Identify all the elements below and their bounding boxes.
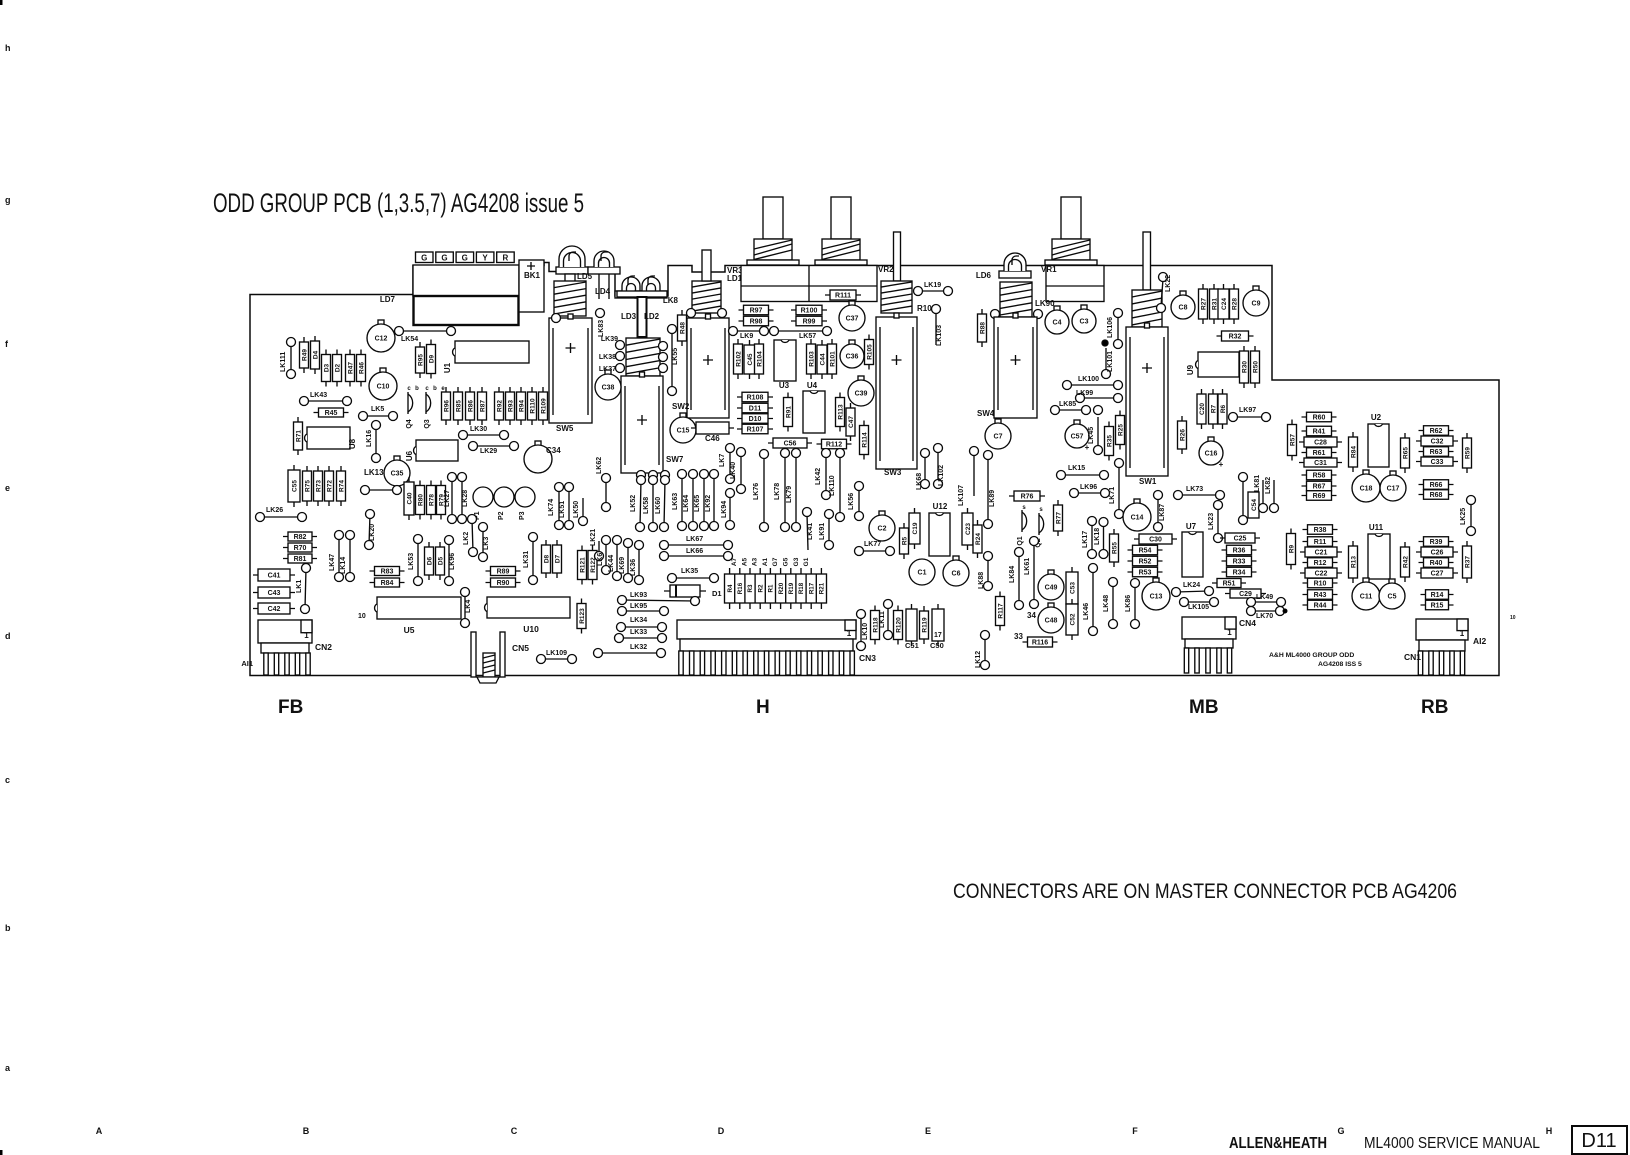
connector CN2 xyxy=(258,620,332,675)
capacitor C14 xyxy=(1123,499,1151,531)
pad under C38 left xyxy=(552,314,561,323)
switch SW7 xyxy=(621,372,684,473)
svg-text:C5: C5 xyxy=(1388,594,1397,601)
svg-text:LK65: LK65 xyxy=(694,495,701,512)
svg-text:C9: C9 xyxy=(1252,301,1261,308)
fader hatch LK8 xyxy=(692,281,721,313)
svg-text:D6: D6 xyxy=(426,556,433,565)
svg-text:R33: R33 xyxy=(1233,559,1246,566)
resistor R24 xyxy=(973,520,982,558)
svg-text:R78: R78 xyxy=(428,494,435,506)
svg-text:G: G xyxy=(441,254,447,263)
svg-text:LK87: LK87 xyxy=(1159,504,1166,521)
svg-text:LK33: LK33 xyxy=(630,629,647,636)
pot body VR3/VR2 xyxy=(741,266,877,302)
svg-text:C43: C43 xyxy=(268,590,281,597)
link LK11 xyxy=(879,600,893,640)
LED LD5 neck xyxy=(565,274,575,282)
svg-text:1: 1 xyxy=(1460,629,1465,638)
resistor R107 xyxy=(737,424,773,434)
svg-text:LK45: LK45 xyxy=(1088,427,1095,444)
svg-text:LK74: LK74 xyxy=(548,499,555,516)
capacitor C4 xyxy=(1045,306,1069,334)
capacitor C1 xyxy=(909,559,935,585)
svg-text:C20: C20 xyxy=(1199,403,1206,415)
resistor R92 xyxy=(495,387,504,425)
svg-text:R18: R18 xyxy=(798,582,805,594)
svg-text:SW7: SW7 xyxy=(666,455,684,464)
svg-text:C50: C50 xyxy=(930,641,944,650)
indicator box R5 xyxy=(497,252,515,263)
fader hatch above SW5 xyxy=(554,281,586,316)
svg-text:R11: R11 xyxy=(1314,539,1327,546)
capacitor C11 xyxy=(1352,578,1380,610)
svg-text:R71: R71 xyxy=(295,430,302,442)
svg-text:R117: R117 xyxy=(997,603,1004,619)
svg-text:R25: R25 xyxy=(1117,424,1124,436)
LED spacer LD3/LD2 xyxy=(617,291,667,337)
svg-text:C30: C30 xyxy=(1149,537,1162,544)
link LK67 xyxy=(660,536,733,550)
resistor R26 xyxy=(1178,416,1187,454)
resistor R78 xyxy=(427,481,436,520)
svg-text:R63: R63 xyxy=(1430,449,1443,456)
svg-text:C15: C15 xyxy=(677,428,690,435)
resistor R27 xyxy=(1199,284,1208,324)
svg-text:R12: R12 xyxy=(1314,560,1327,567)
LED LD2 xyxy=(635,276,667,298)
svg-text:R34: R34 xyxy=(1233,570,1246,577)
svg-text:C46: C46 xyxy=(705,434,720,443)
resistor R68 xyxy=(1419,490,1454,500)
link LK52 xyxy=(630,476,646,532)
svg-text:U6: U6 xyxy=(405,450,414,461)
resistor R117 xyxy=(996,592,1005,631)
corner tick top-left xyxy=(0,0,3,5)
resistor R41 xyxy=(1302,426,1337,436)
IC U11 xyxy=(1368,523,1390,579)
link LK81 xyxy=(1254,475,1268,513)
svg-text:R114: R114 xyxy=(861,432,868,448)
LED LD4 xyxy=(588,251,620,299)
svg-text:C53: C53 xyxy=(1069,582,1076,594)
svg-text:LK96: LK96 xyxy=(449,553,456,570)
svg-text:VR2: VR2 xyxy=(878,265,894,274)
svg-text:LK11: LK11 xyxy=(879,611,886,628)
svg-text:LK38: LK38 xyxy=(599,354,616,361)
resistor R82 xyxy=(283,532,317,541)
link LK99 xyxy=(1076,390,1123,403)
svg-text:R66: R66 xyxy=(1430,482,1443,489)
link LK13 pads xyxy=(361,486,402,495)
resistor R48 xyxy=(678,310,687,346)
link LK2 xyxy=(463,515,478,557)
svg-text:BK1: BK1 xyxy=(524,271,541,280)
link LK65 xyxy=(694,470,709,531)
potentiometer VR3 xyxy=(727,197,799,275)
svg-text:G: G xyxy=(462,254,468,263)
link LK101 xyxy=(1102,348,1115,379)
svg-text:AI1: AI1 xyxy=(241,659,253,668)
svg-text:C49: C49 xyxy=(1045,585,1058,592)
svg-text:R21: R21 xyxy=(819,582,826,594)
link LK56 xyxy=(848,482,864,521)
svg-text:R50: R50 xyxy=(1252,361,1259,373)
resistor R74 xyxy=(337,466,346,506)
svg-text:Q3: Q3 xyxy=(424,419,431,428)
resistor R119 xyxy=(920,606,929,644)
svg-text:LK94: LK94 xyxy=(721,501,728,518)
transistor Q2 xyxy=(1035,513,1044,548)
resistor R123 xyxy=(577,599,586,634)
svg-text:R85: R85 xyxy=(455,400,462,412)
svg-text:LK76: LK76 xyxy=(753,483,760,500)
svg-text:LK3: LK3 xyxy=(483,537,490,550)
svg-text:34: 34 xyxy=(1027,611,1036,620)
svg-text:SW3: SW3 xyxy=(884,468,902,477)
svg-text:e: e xyxy=(5,483,10,493)
svg-text:ML4000 SERVICE MANUAL: ML4000 SERVICE MANUAL xyxy=(1364,1135,1540,1152)
svg-text:LK83: LK83 xyxy=(598,320,605,337)
capacitor C39 xyxy=(848,376,874,406)
resistor R79 xyxy=(437,481,446,520)
svg-text:LK110: LK110 xyxy=(829,475,836,496)
svg-text:VR1: VR1 xyxy=(1041,265,1057,274)
diode D5 xyxy=(436,542,445,580)
resistor R118 xyxy=(871,606,880,645)
svg-text:C: C xyxy=(511,1126,518,1136)
capacitor C12 xyxy=(367,320,395,352)
svg-text:CONNECTORS ARE ON MASTER CONNE: CONNECTORS ARE ON MASTER CONNECTOR PCB A… xyxy=(953,879,1457,903)
bracket BK1 xyxy=(519,260,544,312)
link LK6 xyxy=(597,536,611,575)
link LK31 xyxy=(523,533,538,585)
svg-text:C44: C44 xyxy=(819,353,826,365)
svg-text:LK66: LK66 xyxy=(686,548,703,555)
svg-text:R111: R111 xyxy=(835,293,851,300)
capacitor C19 xyxy=(909,508,920,549)
capacitor C20 xyxy=(1197,389,1206,429)
svg-text:C54: C54 xyxy=(1251,499,1258,511)
link LK93 xyxy=(618,592,700,606)
link LK84 xyxy=(1009,548,1024,610)
indicator box G3 xyxy=(456,252,474,263)
resistor R11 xyxy=(1303,537,1338,547)
svg-text:LK71: LK71 xyxy=(1109,487,1116,504)
svg-text:d: d xyxy=(5,631,11,641)
svg-text:R119: R119 xyxy=(921,617,928,633)
svg-text:LK18: LK18 xyxy=(1094,528,1101,545)
svg-text:LK95: LK95 xyxy=(630,603,647,610)
svg-text:R84: R84 xyxy=(1350,446,1357,458)
link LK61 xyxy=(1024,537,1039,609)
diode D3 xyxy=(322,350,331,387)
svg-text:AG4208 ISS 5: AG4208 ISS 5 xyxy=(1318,661,1362,668)
diode D4 xyxy=(311,336,320,374)
capacitor C25 xyxy=(1220,533,1260,543)
svg-text:C35: C35 xyxy=(391,471,404,478)
svg-text:C13: C13 xyxy=(1150,594,1163,601)
shaft above SW3 xyxy=(894,232,901,281)
link LK100 xyxy=(1063,376,1123,390)
svg-text:C3: C3 xyxy=(1080,319,1089,326)
svg-text:LK48: LK48 xyxy=(1103,595,1110,612)
resistor R65 xyxy=(1401,433,1410,473)
svg-text:CN3: CN3 xyxy=(859,653,876,663)
resistor R104 xyxy=(755,339,764,379)
capacitor C15 xyxy=(670,413,696,443)
svg-text:R3: R3 xyxy=(747,584,754,592)
svg-text:LK82: LK82 xyxy=(1265,477,1272,494)
resistor R15 xyxy=(1421,600,1454,610)
svg-text:SW1: SW1 xyxy=(1139,477,1157,486)
svg-text:LK73: LK73 xyxy=(1186,486,1203,493)
resistor R51 xyxy=(1212,579,1246,588)
resistor R96 xyxy=(442,387,451,425)
svg-text:R96: R96 xyxy=(443,400,450,412)
svg-text:b: b xyxy=(5,923,11,933)
resistor R60 xyxy=(1302,412,1337,422)
svg-text:R4: R4 xyxy=(727,584,734,592)
svg-text:R84: R84 xyxy=(381,580,394,587)
link LK19 xyxy=(914,282,953,296)
LED LD6 xyxy=(999,253,1031,278)
capacitor C33 xyxy=(1416,457,1458,466)
capacitor C42 xyxy=(253,603,295,614)
svg-text:LK1: LK1 xyxy=(296,580,303,593)
svg-text:LK57: LK57 xyxy=(799,333,816,340)
resistor R85 xyxy=(454,387,463,425)
resistor R52 xyxy=(1128,556,1163,566)
svg-text:LD3: LD3 xyxy=(621,312,637,321)
resistor R101 xyxy=(828,339,837,379)
resistor R55 xyxy=(1110,529,1119,567)
svg-text:LD7: LD7 xyxy=(380,295,396,304)
corner tick bottom-left xyxy=(0,1150,3,1155)
transistor Q4 xyxy=(406,392,413,429)
svg-text:R42: R42 xyxy=(1402,556,1409,568)
link LK96 xyxy=(445,536,457,586)
shaft above SW1 xyxy=(1143,232,1151,290)
svg-text:R38: R38 xyxy=(1314,527,1327,534)
svg-text:R97: R97 xyxy=(750,308,763,315)
svg-text:R120: R120 xyxy=(895,617,902,633)
svg-text:R51: R51 xyxy=(1223,581,1236,588)
capacitor C46 xyxy=(691,422,734,434)
svg-text:C27: C27 xyxy=(1431,571,1444,578)
connector CN5 xyxy=(471,632,529,683)
svg-text:R46: R46 xyxy=(358,362,365,374)
resistor R84b xyxy=(1349,432,1358,472)
svg-text:C37: C37 xyxy=(846,316,859,323)
link LK23 xyxy=(1208,501,1223,543)
resistor R49 xyxy=(300,337,309,373)
fader hatch above SW1 xyxy=(1132,290,1162,327)
link LK74 xyxy=(548,483,564,530)
link LK92 xyxy=(705,470,719,531)
link LK77 xyxy=(855,541,895,556)
link LK21 xyxy=(590,529,604,561)
link LK86 xyxy=(1125,579,1140,629)
svg-text:LK55: LK55 xyxy=(672,348,679,365)
svg-text:R67: R67 xyxy=(1313,484,1326,491)
svg-text:H: H xyxy=(756,697,770,718)
svg-text:G3: G3 xyxy=(793,557,800,566)
svg-text:R75: R75 xyxy=(304,480,311,492)
svg-text:LK19: LK19 xyxy=(924,282,941,289)
link LK103 xyxy=(932,305,944,347)
resistor R112 xyxy=(817,439,852,449)
svg-text:R105: R105 xyxy=(866,344,873,360)
resistor R14 xyxy=(1421,590,1454,600)
resistor R9 xyxy=(1287,529,1296,570)
svg-text:R27: R27 xyxy=(1200,298,1207,310)
svg-text:C42: C42 xyxy=(268,606,281,613)
display housing LD7 upper xyxy=(413,265,519,296)
svg-text:R20: R20 xyxy=(778,582,785,594)
svg-text:R68: R68 xyxy=(1430,492,1443,499)
svg-text:LK86: LK86 xyxy=(1125,595,1132,612)
svg-text:LK63: LK63 xyxy=(672,493,679,510)
resistor R121 xyxy=(578,546,587,585)
capacitor C27 xyxy=(1416,568,1458,578)
link LK53 xyxy=(408,535,423,586)
svg-text:LK105: LK105 xyxy=(1188,604,1209,611)
link LK68 xyxy=(916,449,930,491)
resistor R77 xyxy=(1054,500,1063,536)
link LK96b xyxy=(1070,484,1110,498)
switch SW4 xyxy=(977,313,1037,418)
svg-text:AI2: AI2 xyxy=(1473,636,1487,646)
PCB board outline xyxy=(250,263,1499,676)
link LK20 xyxy=(365,510,377,550)
IC U10 xyxy=(485,597,570,634)
link LK28 xyxy=(458,473,470,524)
resistor R83 xyxy=(370,567,405,576)
resistor R47 xyxy=(346,350,355,387)
svg-text:SW2: SW2 xyxy=(672,402,690,411)
resistor R36 xyxy=(1222,545,1257,555)
svg-text:LK16: LK16 xyxy=(366,430,373,447)
svg-text:CN5: CN5 xyxy=(512,643,529,653)
link LK45 xyxy=(1088,417,1103,455)
svg-text:C41: C41 xyxy=(268,573,281,580)
LED LD5 xyxy=(556,246,593,281)
svg-text:R57: R57 xyxy=(1289,434,1296,446)
IC U2 xyxy=(1368,413,1389,467)
svg-text:C16: C16 xyxy=(1205,451,1218,458)
svg-text:U1: U1 xyxy=(443,362,452,373)
svg-text:C33: C33 xyxy=(1431,459,1444,466)
svg-text:D4: D4 xyxy=(312,350,319,359)
link LK58 xyxy=(643,476,658,532)
resistor R120 xyxy=(894,606,903,645)
svg-text:R13: R13 xyxy=(1350,556,1357,568)
svg-text:LK97: LK97 xyxy=(1239,407,1256,414)
IC U3 xyxy=(774,340,796,390)
svg-text:C34: C34 xyxy=(546,446,561,455)
capacitor C22 xyxy=(1300,568,1342,578)
capacitor C6 xyxy=(943,556,969,586)
transistor Q3 xyxy=(424,392,431,429)
svg-text:LK78: LK78 xyxy=(774,483,781,500)
svg-text:b: b xyxy=(433,386,437,392)
svg-text:R98: R98 xyxy=(750,319,763,326)
svg-text:A&H ML4000 GROUP ODD: A&H ML4000 GROUP ODD xyxy=(1269,652,1354,659)
capacitor C28 xyxy=(1299,437,1342,447)
svg-text:C57: C57 xyxy=(1071,434,1084,441)
svg-text:R121: R121 xyxy=(579,557,586,573)
svg-text:LK103: LK103 xyxy=(936,325,943,346)
svg-text:LK5: LK5 xyxy=(371,406,384,413)
svg-text:C40: C40 xyxy=(406,492,413,504)
link LK88 xyxy=(978,552,993,591)
svg-text:LK101: LK101 xyxy=(1107,351,1114,372)
shaft above LK8 xyxy=(702,250,711,281)
link LK66 xyxy=(660,548,733,561)
IC U5 xyxy=(375,597,461,635)
svg-text:R91: R91 xyxy=(785,406,792,418)
diode D8 xyxy=(542,540,551,578)
resistor R31 xyxy=(1210,284,1219,324)
IC U4 xyxy=(803,381,825,433)
resistor R94 xyxy=(517,387,526,425)
resistor R76 xyxy=(1009,491,1045,501)
indicator box Y4 xyxy=(476,252,494,263)
resistor R93 xyxy=(506,387,515,425)
svg-text:C25: C25 xyxy=(1234,536,1247,543)
link LK1 xyxy=(296,564,311,614)
svg-text:D3: D3 xyxy=(323,363,330,372)
resistor R98 xyxy=(739,316,774,326)
svg-text:R15: R15 xyxy=(1431,603,1444,610)
svg-text:LK35: LK35 xyxy=(681,568,698,575)
svg-text:LK69: LK69 xyxy=(619,557,626,574)
svg-text:U5: U5 xyxy=(404,625,415,635)
svg-text:C12: C12 xyxy=(375,336,388,343)
resistor R25 xyxy=(1116,411,1125,450)
connector CN4 xyxy=(1182,617,1256,673)
svg-text:LK6: LK6 xyxy=(597,553,604,566)
svg-text:R28: R28 xyxy=(1231,298,1238,310)
capacitor C36 xyxy=(840,340,864,368)
svg-text:R44: R44 xyxy=(1314,603,1327,610)
resistor array R4-R21 xyxy=(725,568,827,609)
capacitor C57 xyxy=(1065,420,1090,452)
svg-text:LK30: LK30 xyxy=(470,426,487,433)
link LK18 xyxy=(1094,518,1108,559)
capacitor C34 xyxy=(524,441,552,473)
svg-text:D1: D1 xyxy=(712,589,722,598)
svg-text:LK111: LK111 xyxy=(280,352,287,372)
svg-text:U12: U12 xyxy=(933,502,948,511)
svg-text:R16: R16 xyxy=(737,582,744,594)
pads beside LK8 hatch xyxy=(687,309,696,318)
svg-text:R19: R19 xyxy=(788,582,795,594)
svg-text:LK25: LK25 xyxy=(1460,508,1467,525)
link LK36 xyxy=(630,541,644,585)
resistor R73 xyxy=(314,466,323,506)
diode D6 xyxy=(425,542,434,580)
svg-text:C39: C39 xyxy=(855,391,868,398)
diode D2 xyxy=(333,350,342,387)
switch SW3 xyxy=(876,313,917,477)
resistor R70 xyxy=(283,543,317,552)
link LK91 xyxy=(819,510,834,550)
svg-text:C47: C47 xyxy=(848,416,855,428)
capacitor C23 xyxy=(962,508,973,550)
capacitor C8 xyxy=(1171,291,1195,319)
